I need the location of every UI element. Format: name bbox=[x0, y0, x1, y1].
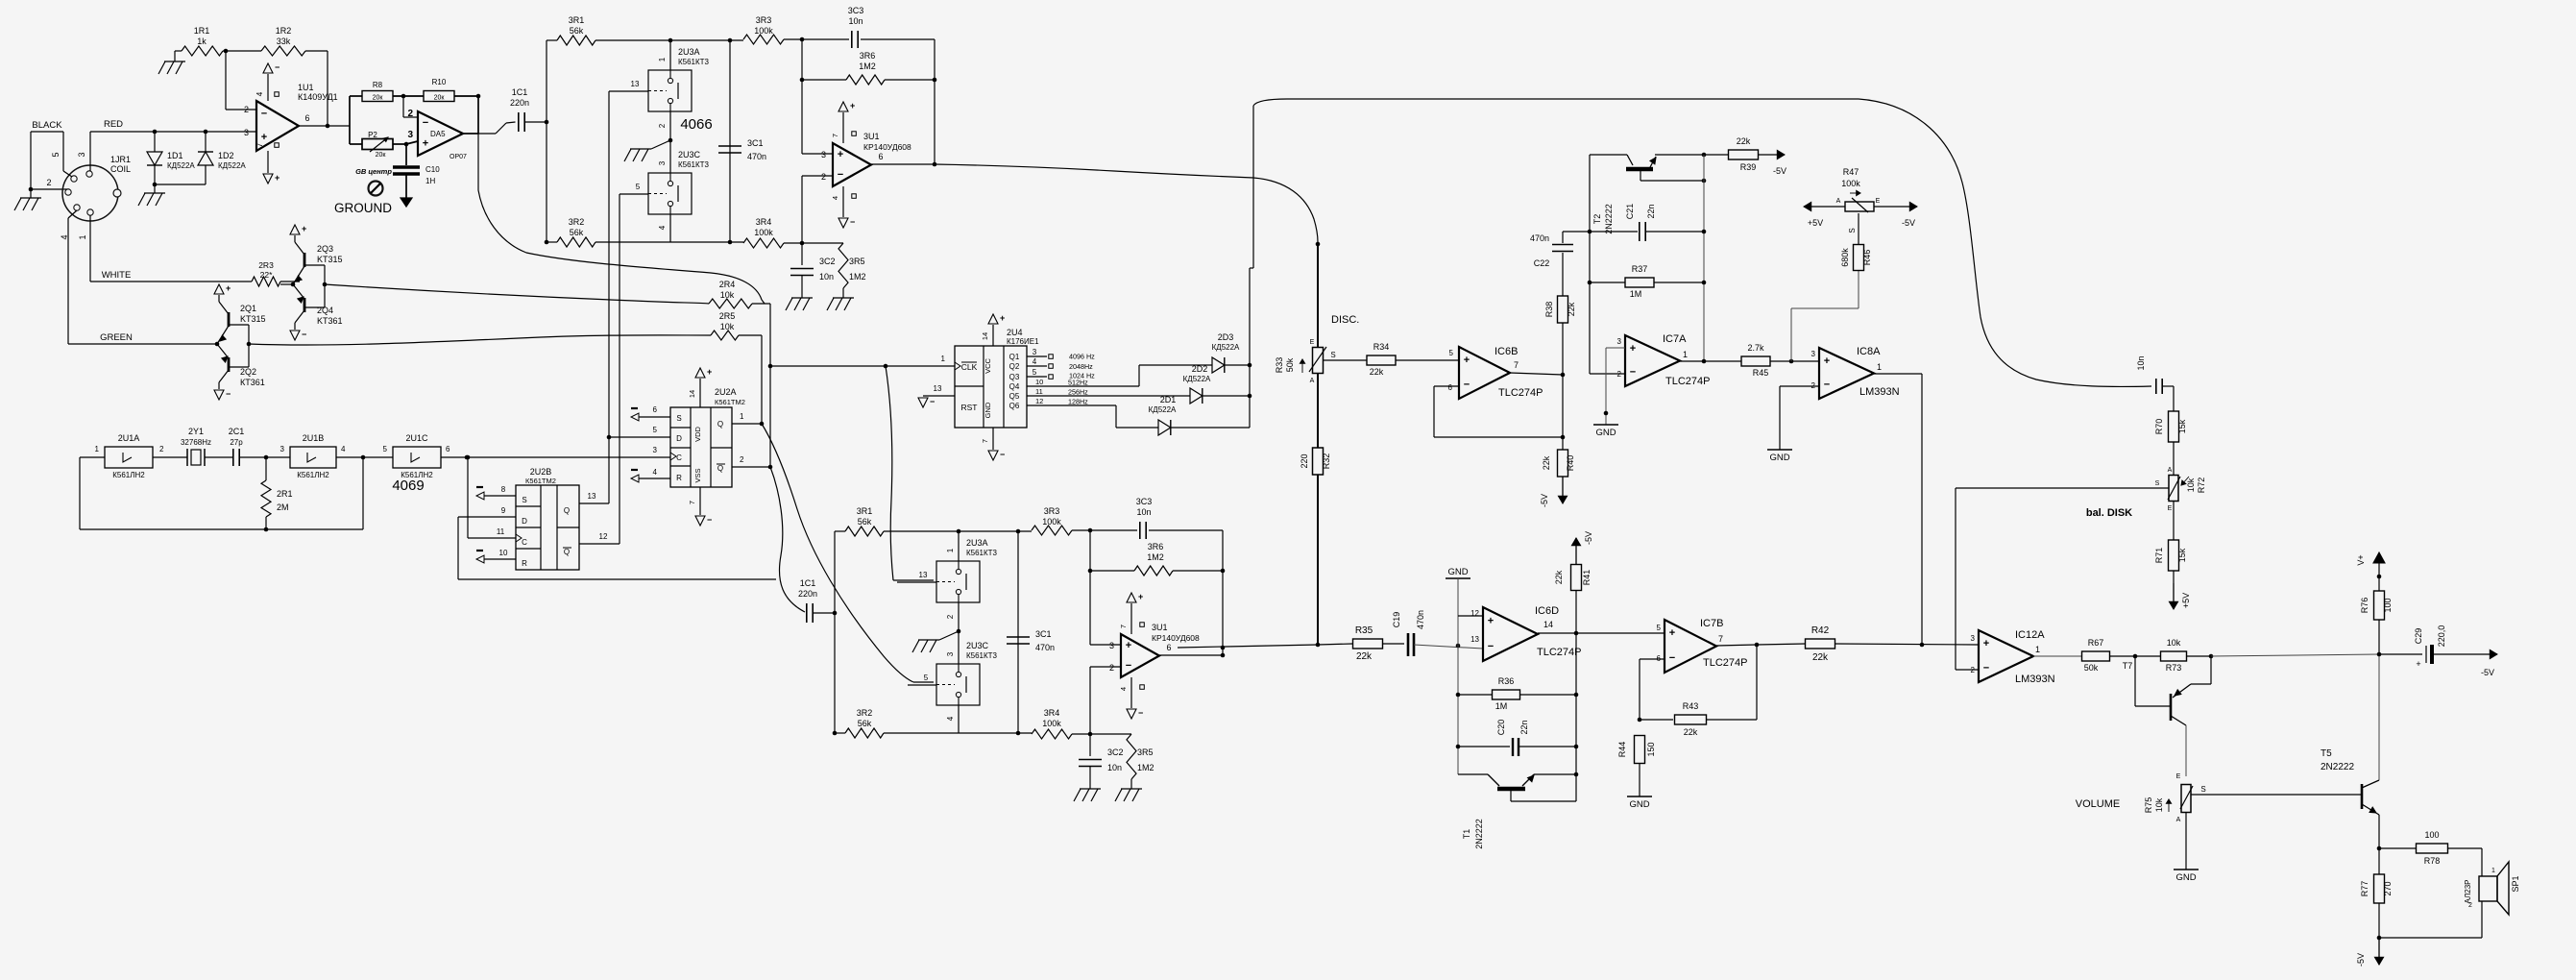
svg-text:C: C bbox=[522, 538, 527, 547]
svg-text:−: − bbox=[275, 62, 279, 72]
svg-text:7: 7 bbox=[831, 134, 839, 137]
svg-text:3: 3 bbox=[653, 446, 658, 454]
svg-text:3R6: 3R6 bbox=[1148, 542, 1164, 551]
svg-text:−: − bbox=[1488, 641, 1494, 652]
svg-text:3R5: 3R5 bbox=[1137, 747, 1154, 757]
svg-text:DISC.: DISC. bbox=[1331, 314, 1359, 326]
svg-text:14: 14 bbox=[688, 390, 696, 398]
svg-text:S: S bbox=[2200, 785, 2205, 794]
svg-text:2: 2 bbox=[821, 172, 826, 182]
svg-text:10: 10 bbox=[499, 549, 508, 557]
svg-text:RED: RED bbox=[104, 119, 123, 130]
svg-text:R70: R70 bbox=[2154, 419, 2164, 435]
svg-text:4: 4 bbox=[831, 196, 839, 200]
svg-text:22k: 22k bbox=[1370, 367, 1384, 377]
svg-text:R72: R72 bbox=[2197, 478, 2206, 494]
svg-text:+: + bbox=[1000, 313, 1005, 323]
svg-text:50k: 50k bbox=[1285, 357, 1295, 372]
svg-text:32768Hz: 32768Hz bbox=[181, 438, 211, 447]
svg-text:2: 2 bbox=[46, 178, 51, 187]
svg-text:3: 3 bbox=[1811, 350, 1816, 358]
svg-text:1U1: 1U1 bbox=[298, 83, 314, 92]
svg-text:КР140УД608: КР140УД608 bbox=[1152, 633, 1200, 643]
svg-text:T7: T7 bbox=[2123, 661, 2133, 671]
svg-text:GND: GND bbox=[1769, 453, 1789, 463]
svg-text:27p: 27p bbox=[230, 438, 243, 447]
svg-text:КД522А: КД522А bbox=[1183, 375, 1211, 383]
svg-text:2U3A: 2U3A bbox=[678, 47, 700, 57]
svg-text:+: + bbox=[1126, 640, 1131, 651]
svg-text:R39: R39 bbox=[1740, 162, 1757, 172]
svg-text:−: − bbox=[1824, 380, 1830, 391]
svg-text:2R5: 2R5 bbox=[719, 311, 736, 321]
svg-text:IC12A: IC12A bbox=[2015, 629, 2045, 641]
svg-text:R45: R45 bbox=[1753, 368, 1769, 378]
svg-text:−: − bbox=[261, 109, 267, 120]
svg-text:C20: C20 bbox=[1496, 720, 1506, 736]
svg-text:GND: GND bbox=[1595, 428, 1616, 438]
svg-text:2N2222: 2N2222 bbox=[2321, 762, 2354, 772]
svg-text:100k: 100k bbox=[1841, 179, 1860, 188]
svg-text:2: 2 bbox=[740, 455, 744, 464]
svg-text:1M: 1M bbox=[1630, 289, 1642, 299]
svg-text:13: 13 bbox=[631, 80, 640, 88]
svg-text:-5V: -5V bbox=[2481, 668, 2494, 677]
svg-text:V+: V+ bbox=[2356, 554, 2366, 565]
svg-text:2: 2 bbox=[244, 105, 249, 114]
svg-text:22k: 22k bbox=[1812, 652, 1829, 663]
svg-text:S: S bbox=[2155, 480, 2160, 487]
svg-text:3: 3 bbox=[1617, 337, 1622, 346]
svg-text:2R3: 2R3 bbox=[258, 260, 274, 270]
svg-text:−: − bbox=[1630, 367, 1636, 379]
svg-text:C22: C22 bbox=[1534, 258, 1550, 268]
svg-text:2U1C: 2U1C bbox=[405, 433, 428, 443]
svg-text:VDD: VDD bbox=[693, 427, 702, 442]
svg-text:15k: 15k bbox=[2177, 548, 2187, 562]
svg-text:1M2: 1M2 bbox=[1137, 763, 1154, 772]
svg-text:R73: R73 bbox=[2166, 663, 2182, 673]
svg-text:5: 5 bbox=[51, 152, 61, 157]
svg-text:22k: 22k bbox=[1737, 136, 1751, 146]
svg-text:2N2222: 2N2222 bbox=[1604, 204, 1614, 234]
svg-text:6: 6 bbox=[653, 405, 658, 414]
svg-text:3: 3 bbox=[821, 150, 826, 159]
svg-text:9: 9 bbox=[501, 506, 506, 515]
svg-text:50k: 50k bbox=[2084, 663, 2099, 673]
svg-text:2Q1: 2Q1 bbox=[240, 304, 256, 313]
svg-text:1: 1 bbox=[941, 355, 946, 363]
svg-text:2D3: 2D3 bbox=[1218, 332, 1234, 342]
svg-text:7: 7 bbox=[688, 501, 696, 504]
svg-text:R42: R42 bbox=[1811, 625, 1830, 636]
svg-text:3R6: 3R6 bbox=[860, 51, 876, 61]
svg-text:E: E bbox=[1310, 339, 1315, 346]
svg-text:−: − bbox=[1138, 708, 1143, 718]
svg-text:3R3: 3R3 bbox=[756, 15, 772, 25]
svg-text:10n: 10n bbox=[819, 272, 834, 282]
svg-text:R76: R76 bbox=[2360, 598, 2369, 614]
svg-text:−: − bbox=[838, 169, 843, 181]
svg-text:128Hz: 128Hz bbox=[1068, 398, 1088, 406]
svg-text:-5V: -5V bbox=[1540, 494, 1549, 507]
svg-text:12: 12 bbox=[1470, 609, 1479, 618]
svg-text:5: 5 bbox=[1449, 349, 1454, 357]
svg-text:3U1: 3U1 bbox=[863, 132, 880, 141]
svg-text:56k: 56k bbox=[570, 26, 584, 36]
svg-text:10n: 10n bbox=[848, 16, 863, 26]
svg-text:2U3C: 2U3C bbox=[678, 150, 701, 159]
svg-text:2: 2 bbox=[159, 445, 164, 453]
svg-text:R47: R47 bbox=[1843, 167, 1859, 177]
svg-text:1: 1 bbox=[1877, 362, 1882, 372]
svg-text:4: 4 bbox=[653, 468, 658, 477]
svg-text:1D2: 1D2 bbox=[218, 151, 234, 160]
svg-text:-5V: -5V bbox=[1584, 531, 1593, 545]
svg-text:20к: 20к bbox=[373, 95, 384, 102]
svg-text:6: 6 bbox=[1166, 643, 1171, 652]
svg-text:3C3: 3C3 bbox=[1136, 497, 1153, 506]
svg-text:2U4: 2U4 bbox=[1007, 328, 1023, 337]
svg-text:10n: 10n bbox=[1107, 763, 1122, 772]
svg-text:KT315: KT315 bbox=[317, 255, 343, 264]
svg-text:GND: GND bbox=[1447, 567, 1468, 577]
svg-text:KT361: KT361 bbox=[317, 316, 343, 326]
svg-text:2R4: 2R4 bbox=[719, 280, 736, 289]
svg-text:−: − bbox=[850, 217, 855, 227]
svg-text:10k: 10k bbox=[2186, 478, 2196, 492]
svg-text:220: 220 bbox=[1300, 453, 1309, 468]
svg-text:100k: 100k bbox=[1042, 517, 1061, 527]
svg-text:3U1: 3U1 bbox=[1152, 623, 1168, 632]
svg-text:6: 6 bbox=[304, 113, 309, 123]
svg-text:+: + bbox=[1983, 638, 1989, 649]
svg-text:К561ТМ2: К561ТМ2 bbox=[715, 398, 745, 406]
svg-text:3C2: 3C2 bbox=[819, 257, 836, 266]
svg-text:OP07: OP07 bbox=[450, 154, 467, 160]
svg-text:3R5: 3R5 bbox=[849, 257, 865, 266]
svg-text:1: 1 bbox=[95, 445, 100, 453]
svg-text:2U3C: 2U3C bbox=[966, 641, 989, 650]
svg-text:1R2: 1R2 bbox=[276, 26, 292, 36]
svg-text:+5V: +5V bbox=[2181, 593, 2191, 608]
svg-text:3R1: 3R1 bbox=[569, 15, 585, 25]
svg-text:A: A bbox=[2176, 817, 2181, 823]
svg-text:3: 3 bbox=[280, 445, 285, 453]
svg-text:+: + bbox=[261, 132, 267, 143]
svg-text:LM393N: LM393N bbox=[2015, 674, 2055, 685]
svg-text:VCC: VCC bbox=[984, 358, 992, 374]
svg-text:3R2: 3R2 bbox=[569, 217, 585, 227]
svg-text:270: 270 bbox=[2383, 881, 2393, 895]
svg-text:-5V: -5V bbox=[1773, 166, 1786, 176]
svg-text:1: 1 bbox=[2035, 645, 2040, 654]
svg-text:КР140УД608: КР140УД608 bbox=[863, 142, 911, 152]
svg-text:100k: 100k bbox=[754, 228, 773, 237]
svg-text:R71: R71 bbox=[2154, 548, 2164, 564]
svg-text:2: 2 bbox=[2468, 902, 2472, 909]
svg-text:2: 2 bbox=[1109, 663, 1114, 673]
svg-text:R8: R8 bbox=[373, 81, 383, 89]
svg-text:4: 4 bbox=[341, 445, 346, 453]
svg-text:470n: 470n bbox=[1530, 233, 1549, 243]
svg-text:2M: 2M bbox=[277, 502, 289, 512]
svg-text:IC6B: IC6B bbox=[1495, 346, 1518, 357]
svg-text:10k: 10k bbox=[720, 322, 735, 331]
svg-text:22n: 22n bbox=[1646, 204, 1656, 218]
svg-text:1Н: 1Н bbox=[425, 177, 435, 185]
svg-text:+: + bbox=[226, 283, 231, 293]
svg-text:Q3: Q3 bbox=[1009, 373, 1020, 381]
svg-text:GREEN: GREEN bbox=[100, 332, 133, 343]
svg-text:IC7A: IC7A bbox=[1663, 333, 1687, 345]
svg-text:5: 5 bbox=[1033, 368, 1037, 377]
svg-text:−: − bbox=[930, 397, 935, 406]
svg-text:2U2B: 2U2B bbox=[530, 467, 552, 477]
svg-text:IC8A: IC8A bbox=[1857, 346, 1881, 357]
svg-text:К561КТ3: К561КТ3 bbox=[678, 58, 710, 66]
svg-text:4: 4 bbox=[658, 225, 667, 230]
svg-text:−: − bbox=[1126, 660, 1131, 672]
svg-text:6: 6 bbox=[1448, 383, 1453, 392]
svg-text:1M2: 1M2 bbox=[849, 272, 866, 282]
svg-text:2U2A: 2U2A bbox=[715, 387, 737, 397]
svg-text:КТ361: КТ361 bbox=[240, 378, 265, 387]
svg-text:Q6: Q6 bbox=[1009, 402, 1020, 410]
svg-text:33k: 33k bbox=[277, 37, 291, 46]
svg-text:+: + bbox=[302, 224, 306, 233]
svg-text:TLC274P: TLC274P bbox=[1665, 376, 1710, 387]
svg-text:2U3A: 2U3A bbox=[966, 538, 988, 548]
svg-text:КД522А: КД522А bbox=[1212, 343, 1240, 352]
svg-text:TLC274P: TLC274P bbox=[1703, 657, 1747, 669]
svg-text:VOLUME: VOLUME bbox=[2076, 798, 2120, 810]
svg-text:2Y1: 2Y1 bbox=[188, 427, 204, 436]
svg-text:12: 12 bbox=[1035, 397, 1043, 405]
svg-text:256Hz: 256Hz bbox=[1068, 388, 1088, 397]
svg-text:56k: 56k bbox=[858, 517, 872, 527]
svg-text:−: − bbox=[226, 389, 231, 399]
svg-text:8: 8 bbox=[501, 485, 506, 494]
svg-text:2: 2 bbox=[658, 123, 667, 128]
svg-text:R37: R37 bbox=[1632, 264, 1648, 274]
svg-text:10: 10 bbox=[1035, 378, 1043, 386]
svg-text:К561КТ3: К561КТ3 bbox=[678, 160, 710, 169]
svg-text:4069: 4069 bbox=[392, 478, 424, 494]
svg-text:R: R bbox=[676, 474, 682, 482]
svg-text:22n: 22n bbox=[1519, 720, 1529, 734]
svg-text:1: 1 bbox=[78, 234, 87, 239]
svg-text:14: 14 bbox=[981, 332, 989, 340]
svg-text:1M: 1M bbox=[1495, 701, 1508, 711]
svg-text:−: − bbox=[302, 330, 306, 339]
svg-text:1: 1 bbox=[1683, 350, 1688, 359]
svg-text:КД522А: КД522А bbox=[218, 161, 246, 170]
svg-text:A: A bbox=[1836, 198, 1841, 205]
svg-text:GB центр: GB центр bbox=[355, 167, 392, 176]
svg-text:К561ЛН2: К561ЛН2 bbox=[112, 471, 145, 479]
svg-text:S: S bbox=[1330, 351, 1335, 359]
svg-text:C29: C29 bbox=[2414, 628, 2423, 645]
svg-text:R77: R77 bbox=[2360, 881, 2369, 897]
svg-text:C19: C19 bbox=[1392, 612, 1401, 628]
svg-text:R44: R44 bbox=[1617, 742, 1627, 758]
svg-text:56k: 56k bbox=[858, 719, 872, 728]
svg-text:1: 1 bbox=[2491, 868, 2495, 874]
svg-text:+: + bbox=[838, 149, 843, 160]
svg-text:Q: Q bbox=[564, 548, 570, 556]
svg-text:7: 7 bbox=[1119, 625, 1128, 628]
svg-text:470n: 470n bbox=[1035, 643, 1055, 652]
svg-text:220n: 220n bbox=[798, 589, 817, 599]
svg-text:12: 12 bbox=[599, 532, 608, 541]
svg-text:6: 6 bbox=[446, 445, 450, 453]
svg-text:22k: 22k bbox=[1554, 570, 1564, 584]
svg-text:BLACK: BLACK bbox=[32, 120, 62, 131]
svg-text:1M2: 1M2 bbox=[1147, 552, 1164, 562]
svg-text:КД522А: КД522А bbox=[1149, 405, 1177, 414]
svg-text:5: 5 bbox=[383, 445, 388, 453]
svg-text:1D1: 1D1 bbox=[167, 151, 183, 160]
svg-text:3C1: 3C1 bbox=[747, 138, 764, 148]
svg-text:D: D bbox=[676, 434, 682, 443]
svg-text:P2: P2 bbox=[368, 131, 377, 139]
svg-text:20к: 20к bbox=[434, 95, 446, 102]
svg-text:5: 5 bbox=[1657, 624, 1662, 632]
svg-text:R36: R36 bbox=[1498, 676, 1515, 686]
svg-text:2Q3: 2Q3 bbox=[317, 244, 333, 254]
svg-text:5: 5 bbox=[636, 183, 641, 191]
svg-text:22k: 22k bbox=[1684, 727, 1698, 737]
svg-text:−: − bbox=[1669, 652, 1675, 664]
svg-text:−: − bbox=[1000, 450, 1005, 459]
svg-text:4066: 4066 bbox=[680, 116, 712, 133]
svg-text:Q: Q bbox=[564, 506, 570, 515]
svg-text:S: S bbox=[1848, 228, 1857, 233]
svg-text:4: 4 bbox=[946, 716, 955, 721]
svg-text:Q4: Q4 bbox=[1009, 382, 1020, 391]
svg-text:3: 3 bbox=[407, 130, 413, 140]
svg-text:IC6D: IC6D bbox=[1535, 605, 1559, 617]
svg-text:C21: C21 bbox=[1625, 204, 1635, 220]
svg-text:+: + bbox=[2416, 659, 2420, 669]
svg-text:S: S bbox=[522, 496, 526, 504]
svg-text:2N2222: 2N2222 bbox=[1474, 819, 1484, 849]
svg-text:R78: R78 bbox=[2424, 856, 2441, 866]
svg-text:C10: C10 bbox=[425, 165, 440, 174]
svg-text:Q2: Q2 bbox=[1009, 362, 1020, 371]
svg-text:R46: R46 bbox=[1862, 250, 1872, 266]
svg-text:1k: 1k bbox=[197, 37, 207, 46]
svg-text:3: 3 bbox=[1033, 348, 1037, 356]
svg-text:bal. DISK: bal. DISK bbox=[2086, 507, 2132, 519]
svg-text:S: S bbox=[676, 414, 681, 423]
svg-text:К561КТ3: К561КТ3 bbox=[966, 651, 998, 660]
svg-text:3C1: 3C1 bbox=[1035, 629, 1052, 639]
svg-text:−: − bbox=[423, 117, 428, 129]
svg-text:R75: R75 bbox=[2144, 797, 2153, 814]
svg-text:CLK: CLK bbox=[961, 362, 978, 372]
svg-text:11: 11 bbox=[1035, 387, 1043, 396]
svg-text:WHITE: WHITE bbox=[102, 270, 132, 281]
svg-text:470n: 470n bbox=[1416, 610, 1425, 629]
svg-text:20к: 20к bbox=[376, 152, 387, 159]
svg-text:7: 7 bbox=[1514, 360, 1519, 370]
svg-text:E: E bbox=[1876, 198, 1881, 205]
svg-text:KT315: KT315 bbox=[240, 314, 266, 324]
svg-text:3: 3 bbox=[1109, 641, 1114, 650]
svg-text:R38: R38 bbox=[1544, 302, 1554, 318]
svg-text:R34: R34 bbox=[1373, 342, 1390, 352]
svg-text:13: 13 bbox=[588, 492, 596, 501]
svg-text:220,0: 220,0 bbox=[2437, 625, 2446, 648]
svg-text:3R4: 3R4 bbox=[756, 217, 772, 227]
svg-text:22k: 22k bbox=[1567, 302, 1576, 316]
svg-text:RST: RST bbox=[961, 403, 978, 412]
svg-text:АЛ23Р: АЛ23Р bbox=[2464, 880, 2472, 904]
svg-text:R35: R35 bbox=[1355, 625, 1373, 636]
svg-text:Q: Q bbox=[717, 464, 723, 473]
svg-text:4096 Hz: 4096 Hz bbox=[1069, 353, 1095, 361]
svg-text:13: 13 bbox=[934, 384, 942, 393]
svg-text:2R1: 2R1 bbox=[277, 489, 293, 499]
svg-text:2.7k: 2.7k bbox=[1747, 343, 1764, 353]
svg-text:2D2: 2D2 bbox=[1192, 364, 1208, 374]
svg-text:100k: 100k bbox=[1042, 719, 1061, 728]
svg-text:+: + bbox=[1488, 616, 1494, 627]
svg-text:56k: 56k bbox=[570, 228, 584, 237]
svg-text:22k: 22k bbox=[1542, 455, 1551, 470]
svg-text:1: 1 bbox=[740, 412, 744, 421]
svg-text:3R3: 3R3 bbox=[1044, 506, 1060, 516]
svg-text:14: 14 bbox=[1543, 620, 1553, 629]
svg-text:7: 7 bbox=[255, 142, 264, 147]
svg-text:Q: Q bbox=[717, 420, 723, 429]
svg-text:1: 1 bbox=[658, 57, 667, 61]
svg-text:R43: R43 bbox=[1683, 701, 1699, 711]
svg-text:2: 2 bbox=[407, 109, 413, 119]
svg-text:1C1: 1C1 bbox=[800, 578, 816, 588]
svg-text:7: 7 bbox=[1718, 634, 1723, 644]
svg-text:1R1: 1R1 bbox=[194, 26, 210, 36]
svg-text:R33: R33 bbox=[1275, 357, 1284, 374]
svg-text:-5V: -5V bbox=[1902, 218, 1915, 228]
svg-text:2D1: 2D1 bbox=[1160, 395, 1177, 404]
svg-text:A: A bbox=[2168, 467, 2173, 474]
svg-text:-5V: -5V bbox=[2356, 953, 2366, 967]
svg-text:3: 3 bbox=[1971, 634, 1976, 643]
svg-text:1: 1 bbox=[946, 548, 955, 552]
svg-text:2U1B: 2U1B bbox=[303, 433, 325, 443]
svg-text:2C1: 2C1 bbox=[229, 427, 245, 436]
svg-text:2: 2 bbox=[946, 614, 955, 619]
svg-text:TLC274P: TLC274P bbox=[1498, 387, 1543, 399]
svg-text:GND: GND bbox=[984, 402, 992, 418]
svg-text:+: + bbox=[275, 173, 279, 183]
svg-text:10n: 10n bbox=[2136, 355, 2146, 370]
svg-text:10k: 10k bbox=[2167, 638, 2181, 648]
svg-text:D: D bbox=[522, 517, 527, 526]
svg-text:GROUND: GROUND bbox=[334, 201, 392, 215]
svg-text:3C2: 3C2 bbox=[1107, 747, 1124, 757]
svg-text:К561ЛН2: К561ЛН2 bbox=[297, 471, 329, 479]
svg-text:К1409УД1: К1409УД1 bbox=[298, 92, 338, 102]
svg-text:R: R bbox=[522, 559, 527, 568]
svg-text:1M2: 1M2 bbox=[859, 61, 876, 71]
svg-text:15k: 15k bbox=[2177, 419, 2187, 433]
svg-text:100k: 100k bbox=[754, 26, 773, 36]
svg-text:10k: 10k bbox=[2154, 797, 2164, 812]
